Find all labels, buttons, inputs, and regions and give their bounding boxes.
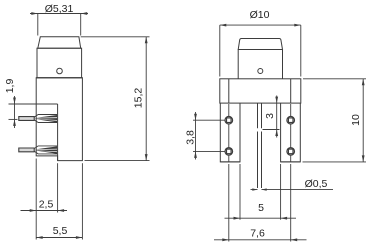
hole top-right	[287, 116, 295, 124]
svg-text:10: 10	[350, 114, 362, 126]
svg-text:2,5: 2,5	[39, 199, 54, 211]
hole bottom-left	[225, 148, 233, 156]
Ø0,5 left arrow	[252, 188, 257, 190]
svg-text:7,6: 7,6	[250, 228, 265, 240]
dimension Ø10 right arrow	[294, 24, 301, 27]
dimension 5 right arrow	[281, 217, 288, 220]
dimension 7,6 right arrow	[291, 238, 298, 241]
pin 1 (upper terminal)	[19, 115, 57, 123]
extension line 3,8 top	[193, 119, 225, 121]
extension line 10 top	[303, 78, 366, 80]
svg-text:Ø0,5: Ø0,5	[305, 178, 328, 190]
dimension 15,2 bottom arrow	[145, 154, 148, 161]
dimension 10 top arrow	[362, 79, 365, 86]
dimension 1,9 bottom arrow	[13, 119, 16, 126]
cap (plunger) side view	[38, 37, 81, 48]
dimension 3,8 bottom arrow	[194, 151, 197, 158]
dimension 2,5 left arrow	[30, 209, 37, 212]
cap front view: tip trapezoid	[238, 39, 282, 50]
alignment line cap top to 15,2 dim	[81, 36, 150, 38]
dimension 5,5 right arrow	[76, 236, 83, 239]
Ø0,5 right arrow	[262, 188, 267, 190]
dimension Ø10 left arrow	[220, 24, 227, 27]
dimension 10 bottom arrow	[362, 155, 365, 162]
extension line 3,8 bottom	[193, 150, 225, 152]
dimension 3,8 top arrow	[194, 114, 197, 121]
hole column line left	[228, 104, 230, 162]
dimension 1,9 line	[14, 96, 16, 128]
dimension 2,5 right arrow	[58, 209, 65, 212]
dimension 3 top arrow	[275, 97, 278, 104]
extension line bottom for 15,2	[85, 160, 150, 162]
hole circle on cap	[258, 69, 263, 74]
extension line below hole column left	[228, 164, 230, 242]
svg-text:3,8: 3,8	[185, 130, 197, 145]
dimension 5 line	[225, 217, 297, 219]
dimension 3 line	[276, 96, 278, 138]
dimension 15,2 top arrow	[145, 37, 148, 44]
body step line	[36, 77, 82, 79]
svg-text:5: 5	[258, 202, 264, 214]
dimension 3 bottom arrow	[275, 130, 278, 137]
dimension 5,5 line	[36, 237, 82, 239]
flange	[220, 79, 301, 103]
dimension 3,8 line	[195, 112, 197, 160]
hole circle on body	[57, 68, 63, 74]
dimension 5,5 left arrow	[36, 236, 43, 239]
recess top line	[9, 103, 58, 105]
dimension Ø5,31 line	[30, 13, 88, 15]
flange inner line right	[290, 79, 292, 103]
left tab	[220, 103, 240, 162]
svg-text:Ø10: Ø10	[250, 9, 270, 21]
flange inner line left	[228, 79, 230, 103]
extension line below tab inner right	[280, 164, 282, 220]
hole column line right	[290, 104, 292, 162]
center pin lower segment	[258, 132, 262, 189]
extension line below tab inner left	[239, 164, 241, 220]
extension line body right bottom	[81, 163, 83, 239]
extension line recess front bottom	[57, 163, 59, 212]
extension line left of Ø5,31	[37, 14, 39, 36]
dimension Ø5,31 left arrow	[31, 12, 38, 15]
extension line left bottom (body left)	[35, 159, 37, 240]
pin 2 (lower terminal)	[19, 146, 57, 154]
dimension 1,9 top arrow	[13, 98, 16, 105]
left tab bottom closing	[220, 161, 300, 163]
extension line right of Ø5,31	[80, 14, 82, 36]
hole top-left: circle + square	[225, 116, 233, 124]
dimension Ø5,31 right arrow	[81, 12, 88, 15]
extension line left of Ø10	[219, 25, 221, 76]
cap front view: cylinder sides	[238, 50, 282, 79]
dimension 5 left arrow	[234, 217, 241, 220]
svg-text:3: 3	[264, 113, 276, 119]
extension line below hole column right	[290, 164, 292, 242]
dimension 7,6 line	[214, 239, 307, 241]
dimension 15,2 line	[145, 37, 147, 161]
lower body	[36, 78, 82, 161]
dimension 7,6 left arrow	[222, 238, 229, 241]
dimension Ø10 line	[220, 24, 301, 26]
svg-text:15,2: 15,2	[132, 88, 144, 109]
hole bottom-right	[287, 148, 295, 156]
Ø0,5 leader line	[251, 189, 334, 191]
extension line for 3	[263, 129, 280, 131]
upper body	[37, 48, 82, 78]
right tab	[281, 103, 301, 162]
dimension 10 line	[362, 79, 364, 162]
svg-text:1,9: 1,9	[4, 79, 16, 94]
svg-text:5,5: 5,5	[53, 225, 68, 237]
extension line for 1,9 at pin	[9, 118, 18, 120]
recess front vertical	[57, 104, 59, 161]
extension line 10 bottom	[303, 161, 367, 163]
dimension 2,5 line	[21, 210, 68, 212]
center post upper segment	[258, 103, 262, 128]
extension line right of Ø10	[300, 25, 302, 76]
